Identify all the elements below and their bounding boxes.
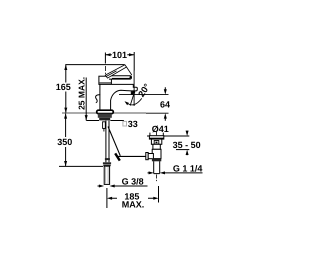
linkage clamp: [115, 153, 120, 160]
pop-up hook left: [96, 95, 101, 103]
svg-text:MAX.: MAX.: [122, 200, 145, 210]
dimension 101 line and arrows: [105, 54, 134, 56]
G 1 1/4 leader underline: [166, 172, 203, 174]
deck extension right: [146, 112, 169, 114]
dimension 185 ticks: [107, 186, 159, 208]
G3/8 threaded end: [104, 166, 109, 184]
dimension 25 MAX. line: [85, 78, 87, 121]
G 3/8 leader underline: [113, 185, 148, 187]
hose band: [105, 158, 110, 160]
lever horizontal: [109, 76, 132, 79]
drain main body: [152, 149, 161, 158]
basin bottom line at drain flange: [147, 135, 189, 137]
svg-text:25 MAX.: 25 MAX.: [76, 77, 86, 110]
bottom extension line at hose end: [59, 165, 103, 167]
lever swing line: [127, 67, 132, 75]
svg-text:Ø41: Ø41: [152, 124, 169, 134]
drain flange: [149, 136, 163, 139]
faucet centerline: [104, 66, 106, 111]
20 degree stream tilted: [130, 93, 134, 105]
deck bottom line with leader to square-33 label: [86, 121, 123, 125]
dimension 64 arrows: [164, 87, 166, 121]
hose nut: [103, 162, 111, 164]
svg-text:G 1 1/4: G 1 1/4: [173, 164, 203, 174]
dimension 350 line: [65, 113, 67, 166]
G 3/8 label arrows: [98, 185, 116, 187]
svg-text:35 - 50: 35 - 50: [173, 140, 201, 150]
diameter 41 ticks: [150, 133, 163, 136]
20 degree nozzle mark: [131, 91, 134, 94]
svg-text:350: 350: [57, 137, 72, 147]
dimension 165 line: [65, 65, 67, 113]
svg-text:64: 64: [160, 99, 170, 109]
drain nut band: [152, 159, 161, 162]
linkage horizontal rod: [119, 155, 147, 157]
base bar: [97, 110, 114, 113]
dimension 64 extension line: [119, 94, 169, 96]
svg-text:33: 33: [128, 119, 138, 129]
cap bottom edge: [99, 82, 111, 84]
supply hose: [106, 121, 109, 163]
square 33 symbol: [123, 121, 127, 126]
pop-up rod under deck: [103, 122, 106, 129]
drain tailpiece: [154, 161, 160, 173]
mounting nut: [98, 114, 112, 118]
drain centerline: [156, 132, 158, 182]
lever end dark: [112, 78, 130, 79]
cartridge cap: [99, 76, 112, 84]
deck top line (gray): [62, 112, 146, 114]
G 1 1/4 label arrows: [148, 172, 167, 174]
dimension 35-50 arrows: [186, 131, 188, 155]
top extension line at lever tip: [65, 64, 124, 66]
dimension 185 line and arrows: [112, 197, 154, 199]
drain side port: [146, 153, 148, 160]
faucet body and spout: [100, 84, 137, 110]
svg-text:101: 101: [112, 50, 127, 60]
spout outlet axis line: [133, 71, 135, 107]
dimension 101 ticks: [105, 52, 134, 71]
35-50 lower reference line: [176, 149, 189, 151]
drain mid section: [153, 144, 160, 149]
svg-text:165: 165: [56, 82, 71, 92]
svg-text:G 3/8: G 3/8: [122, 176, 144, 186]
washer: [99, 118, 110, 121]
drain upper body: [151, 139, 161, 144]
linkage diagonal rod: [108, 127, 120, 156]
lever raised blade: [105, 65, 126, 78]
aerator: [131, 91, 135, 94]
20 degree arc arrow: [126, 98, 142, 104]
